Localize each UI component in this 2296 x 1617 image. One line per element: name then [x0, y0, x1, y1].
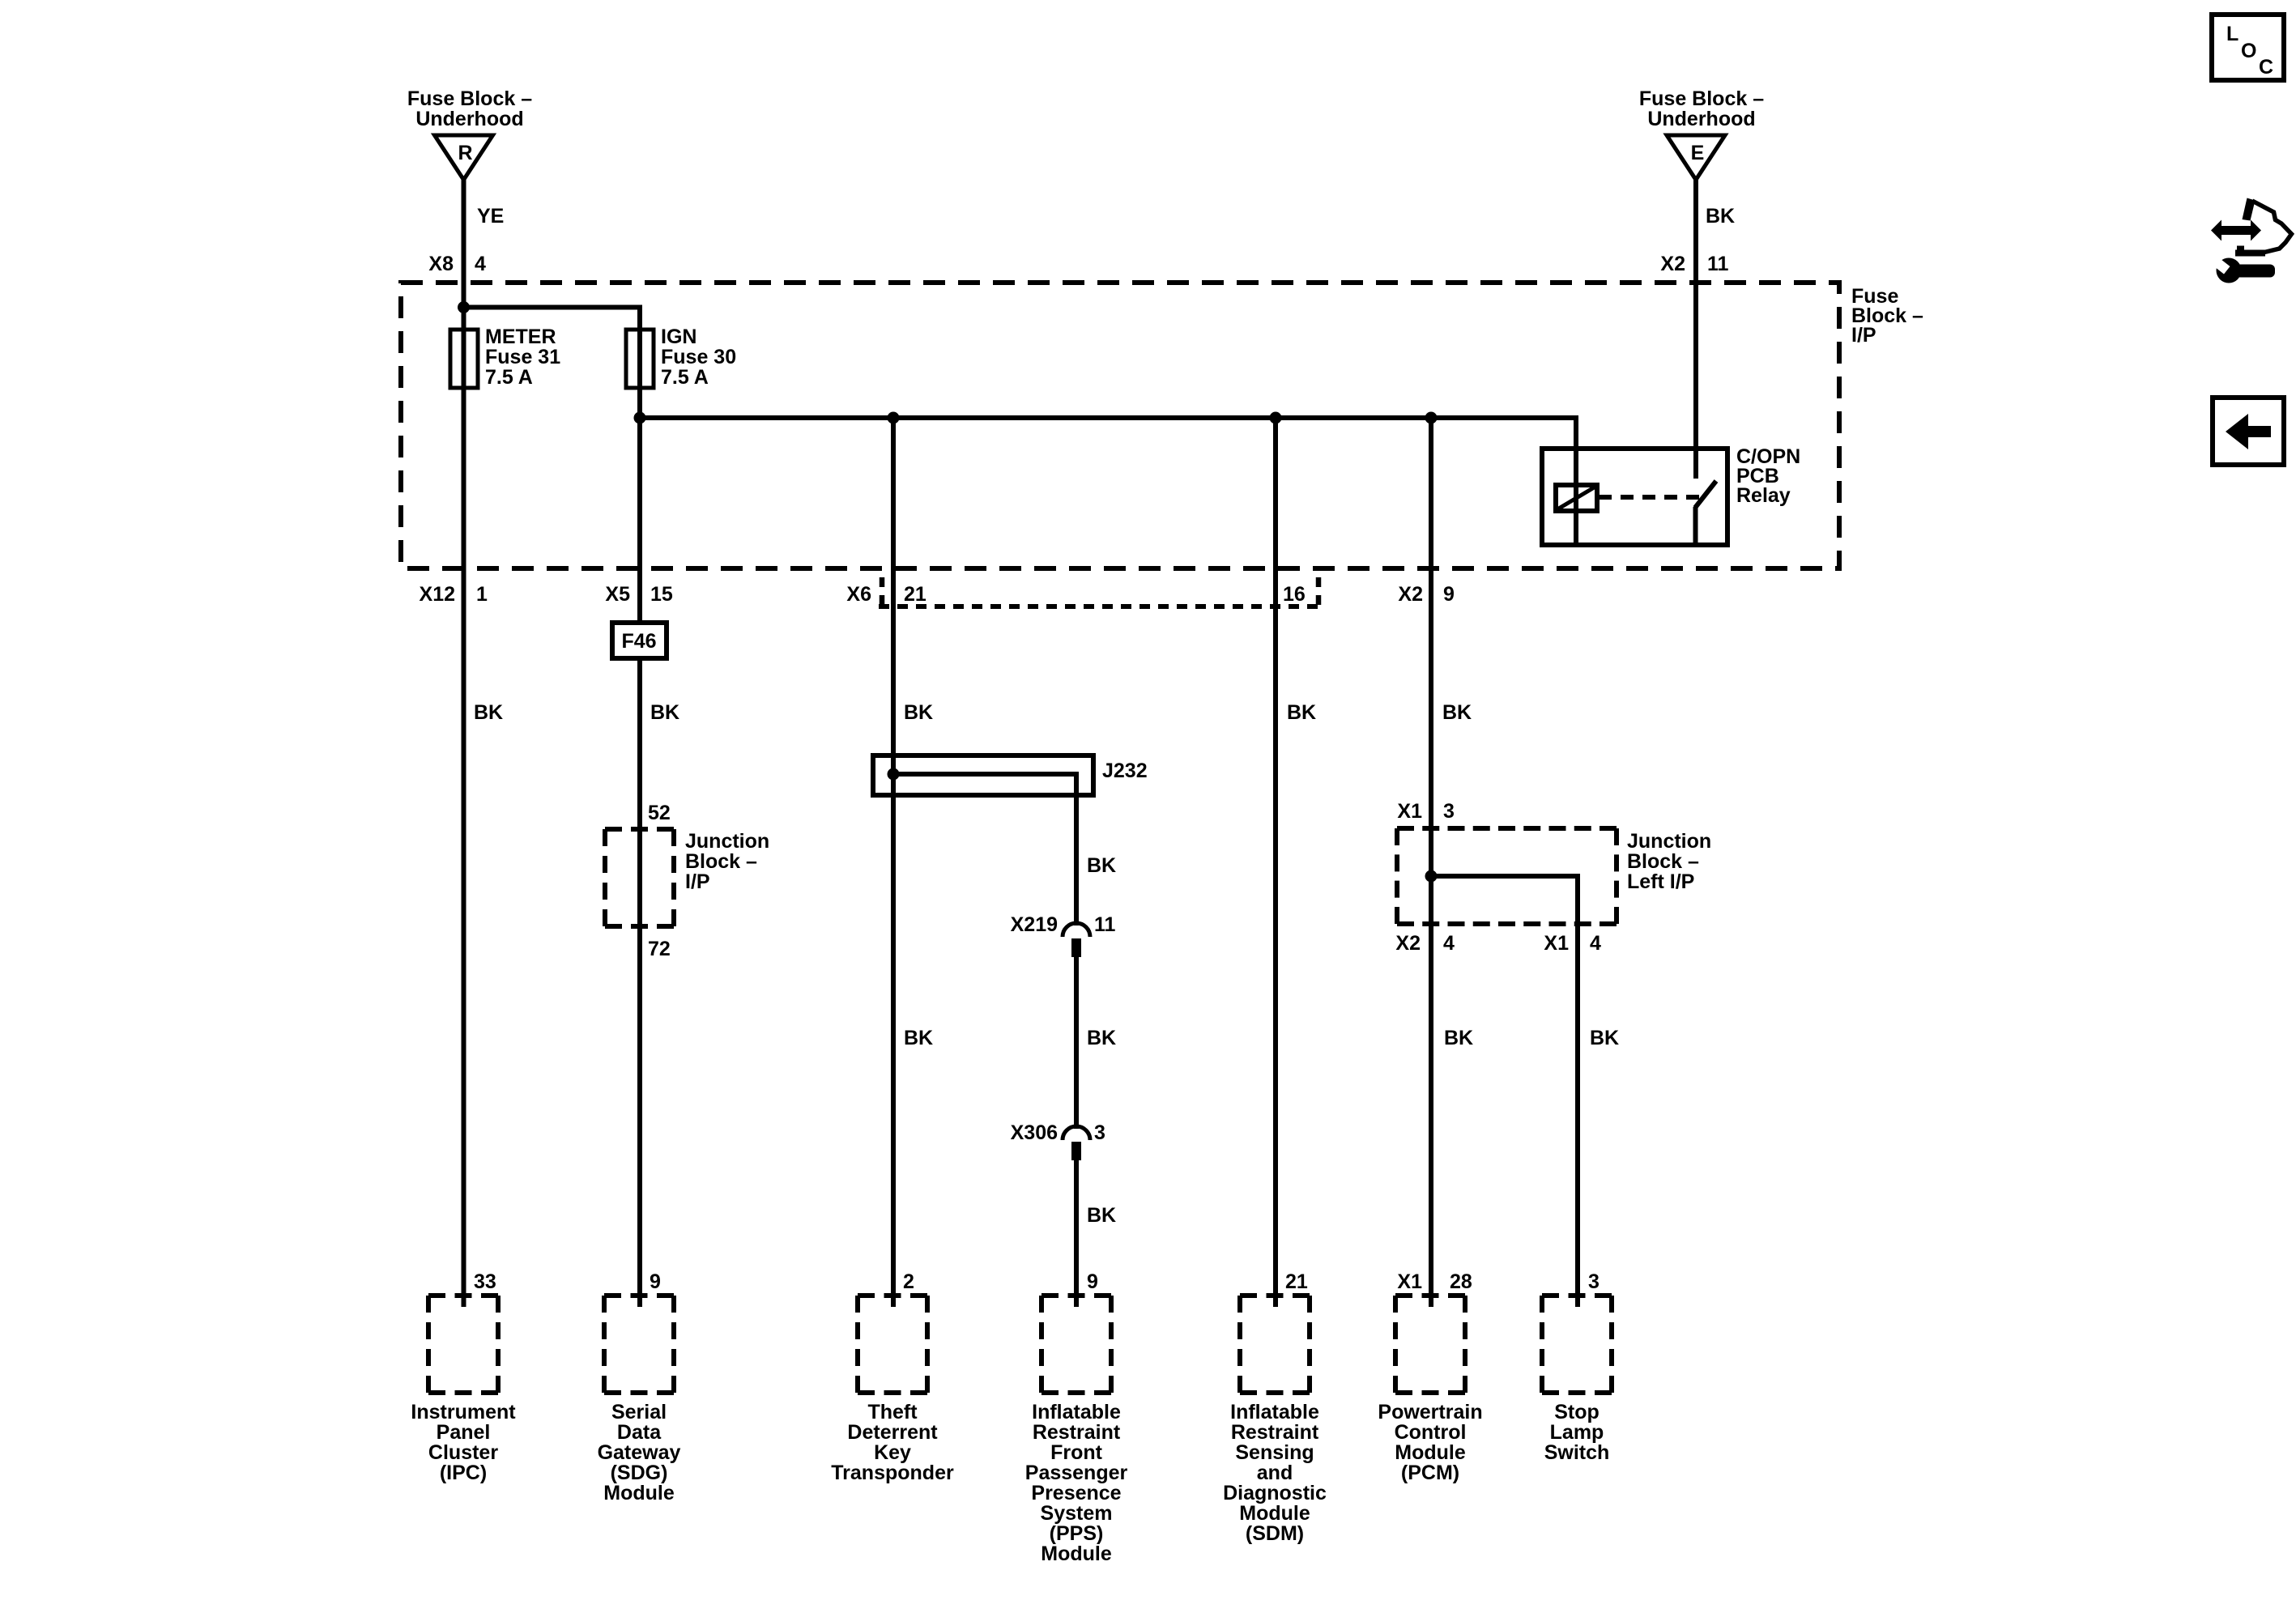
svg-text:Fuse 31: Fuse 31 — [485, 346, 560, 368]
power feed triangle E — [1667, 135, 1725, 180]
svg-text:Key: Key — [874, 1441, 911, 1464]
svg-text:Fuse Block –: Fuse Block – — [407, 87, 532, 110]
svg-text:X5: X5 — [605, 583, 630, 606]
svg-text:21: 21 — [1285, 1270, 1308, 1293]
module box: Instrument Panel Cluster — [428, 1293, 498, 1298]
module box: PPS Module — [1042, 1293, 1111, 1298]
svg-text:X12: X12 — [420, 583, 455, 606]
svg-text:BK: BK — [1087, 1027, 1116, 1049]
module box: Serial Data Gateway — [604, 1293, 674, 1298]
svg-text:F46: F46 — [621, 630, 656, 653]
svg-text:(SDG): (SDG) — [611, 1462, 668, 1484]
fuse F31 (METER Fuse 31 7.5 A) — [450, 330, 478, 388]
svg-text:X2: X2 — [1660, 253, 1685, 275]
wire: R feed down through Fuse 31 to IPC (YE/BK) — [462, 180, 466, 1307]
wire: ignition bus — [640, 418, 1576, 545]
wire: bus to PCM — [1429, 418, 1433, 1307]
svg-text:3: 3 — [1588, 1270, 1600, 1293]
svg-text:E: E — [1691, 142, 1705, 164]
svg-text:Powertrain: Powertrain — [1378, 1401, 1482, 1423]
fuse block I/P dashed outline — [401, 283, 1839, 568]
svg-text:BK: BK — [1444, 1027, 1473, 1049]
icon: harness connector + wrench — [2211, 198, 2292, 283]
svg-text:1: 1 — [476, 583, 488, 606]
icon: LOC legend box — [2212, 15, 2284, 80]
svg-text:Serial: Serial — [611, 1401, 667, 1423]
svg-text:Lamp: Lamp — [1550, 1421, 1604, 1444]
svg-text:Passenger: Passenger — [1025, 1462, 1128, 1484]
svg-text:Deterrent: Deterrent — [847, 1421, 938, 1444]
svg-text:Underhood: Underhood — [1647, 108, 1755, 130]
svg-text:72: 72 — [648, 938, 671, 960]
svg-text:BK: BK — [1706, 205, 1735, 228]
module box: Theft Deterrent Key Transponder — [858, 1293, 927, 1298]
module box: Stop Lamp Switch — [1542, 1293, 1612, 1298]
wire: branch from R feed through Fuse 30 to bus — [464, 308, 641, 419]
fuse F46 box — [612, 623, 667, 658]
svg-text:System: System — [1041, 1502, 1113, 1525]
svg-text:Fuse Block –: Fuse Block – — [1639, 87, 1764, 110]
svg-text:X1: X1 — [1544, 932, 1569, 955]
wire: branch to stop lamp switch — [1431, 876, 1578, 1307]
svg-text:Diagnostic: Diagnostic — [1223, 1482, 1327, 1504]
node: J232 splice — [888, 768, 900, 781]
svg-text:L: L — [2226, 23, 2238, 45]
svg-text:Left I/P: Left I/P — [1627, 870, 1694, 893]
svg-text:BK: BK — [474, 701, 503, 724]
svg-text:Module: Module — [1239, 1502, 1310, 1525]
svg-text:Panel: Panel — [437, 1421, 491, 1444]
node: bus tap PCM — [1425, 412, 1438, 424]
svg-text:METER: METER — [485, 326, 556, 348]
wire: E feed down into relay (BK) — [1693, 180, 1698, 479]
svg-text:X6: X6 — [846, 583, 871, 606]
wire: bus to theft deterrent transponder — [891, 418, 896, 1307]
svg-text:7.5 A: 7.5 A — [661, 366, 709, 389]
svg-text:Relay: Relay — [1736, 484, 1791, 507]
wire: bus to SDM — [1273, 418, 1278, 1307]
svg-text:Block –: Block – — [685, 850, 757, 873]
splice bar J232 — [873, 755, 1093, 795]
svg-text:I/P: I/P — [685, 870, 710, 893]
svg-text:Module: Module — [603, 1482, 675, 1504]
svg-text:Gateway: Gateway — [598, 1441, 681, 1464]
svg-text:Inflatable: Inflatable — [1230, 1401, 1319, 1423]
svg-text:Restraint: Restraint — [1231, 1421, 1319, 1444]
wire: J232 branch to PPS — [893, 774, 1076, 926]
svg-text:BK: BK — [1287, 701, 1316, 724]
module box: PCM — [1395, 1293, 1465, 1298]
svg-text:X2: X2 — [1398, 583, 1423, 606]
in-line connector dotted box (X6/16) — [879, 604, 1318, 609]
in-line connector X306 pin 3 — [1063, 1126, 1090, 1140]
svg-text:4: 4 — [1590, 932, 1601, 955]
wire: bus to SDG module via F46 — [637, 418, 642, 1307]
node: bus at Fuse 30 output — [634, 412, 646, 424]
svg-text:9: 9 — [650, 1270, 661, 1293]
svg-text:X1: X1 — [1397, 800, 1422, 823]
svg-text:Instrument: Instrument — [411, 1401, 516, 1423]
svg-text:Front: Front — [1050, 1441, 1103, 1464]
svg-text:(SDM): (SDM) — [1246, 1522, 1304, 1545]
svg-text:15: 15 — [650, 583, 673, 606]
svg-text:3: 3 — [1094, 1121, 1105, 1144]
svg-text:BK: BK — [904, 701, 933, 724]
svg-text:52: 52 — [648, 802, 671, 824]
svg-text:X1: X1 — [1397, 1270, 1422, 1293]
node: junction block left I/P splice — [1425, 870, 1438, 883]
svg-text:Underhood: Underhood — [415, 108, 523, 130]
wire: X306 to PPS module — [1074, 1160, 1079, 1307]
svg-text:Inflatable: Inflatable — [1032, 1401, 1121, 1423]
svg-text:(PCM): (PCM) — [1401, 1462, 1459, 1484]
svg-text:Theft: Theft — [867, 1401, 918, 1423]
svg-text:(PPS): (PPS) — [1050, 1522, 1104, 1545]
svg-text:BK: BK — [1087, 854, 1116, 877]
svg-text:and: and — [1257, 1462, 1293, 1484]
svg-text:11: 11 — [1094, 913, 1116, 936]
junction block I/P dashed box — [605, 827, 674, 832]
svg-text:7.5 A: 7.5 A — [485, 366, 533, 389]
svg-text:Fuse 30: Fuse 30 — [661, 346, 736, 368]
svg-text:X8: X8 — [428, 253, 454, 275]
svg-text:Restraint: Restraint — [1033, 1421, 1121, 1444]
svg-text:C: C — [2259, 56, 2273, 79]
svg-text:21: 21 — [904, 583, 926, 606]
wire: X219 to X306 — [1074, 957, 1079, 1129]
icon: back arrow box — [2213, 398, 2284, 465]
svg-text:Cluster: Cluster — [428, 1441, 498, 1464]
power feed triangle R — [435, 135, 493, 180]
svg-text:J232: J232 — [1102, 760, 1148, 782]
in-line connector X219 pin 11 — [1063, 923, 1090, 937]
svg-text:16: 16 — [1283, 583, 1306, 606]
node: bus tap theft transponder — [888, 412, 900, 424]
svg-text:3: 3 — [1443, 800, 1455, 823]
svg-text:BK: BK — [650, 701, 679, 724]
node: junction on R feed — [458, 301, 470, 313]
svg-text:2: 2 — [903, 1270, 914, 1293]
svg-text:Transponder: Transponder — [831, 1462, 954, 1484]
svg-text:33: 33 — [474, 1270, 496, 1293]
module box: SDM — [1240, 1293, 1310, 1298]
svg-text:X2: X2 — [1395, 932, 1421, 955]
svg-text:Stop: Stop — [1554, 1401, 1600, 1423]
svg-text:BK: BK — [1590, 1027, 1619, 1049]
svg-text:9: 9 — [1443, 583, 1455, 606]
svg-text:Junction: Junction — [685, 830, 769, 853]
svg-text:(IPC): (IPC) — [440, 1462, 487, 1484]
svg-text:Sensing: Sensing — [1235, 1441, 1314, 1464]
svg-text:O: O — [2241, 40, 2256, 62]
svg-text:Block –: Block – — [1627, 850, 1699, 873]
svg-text:28: 28 — [1450, 1270, 1472, 1293]
junction block Left I/P dashed box — [1397, 826, 1617, 831]
relay switch contact blade — [1695, 481, 1716, 508]
fuse F30 (IGN Fuse 30 7.5 A) — [626, 330, 654, 388]
svg-text:Junction: Junction — [1627, 830, 1711, 853]
svg-text:Switch: Switch — [1544, 1441, 1610, 1464]
svg-text:R: R — [458, 142, 472, 164]
svg-text:4: 4 — [1443, 932, 1455, 955]
svg-text:Data: Data — [617, 1421, 662, 1444]
svg-text:BK: BK — [904, 1027, 933, 1049]
svg-text:I/P: I/P — [1851, 324, 1876, 347]
svg-text:Module: Module — [1041, 1543, 1112, 1565]
svg-text:4: 4 — [475, 253, 486, 275]
svg-text:YE: YE — [477, 205, 504, 228]
svg-text:9: 9 — [1087, 1270, 1098, 1293]
svg-text:X219: X219 — [1011, 913, 1058, 936]
svg-text:Control: Control — [1395, 1421, 1467, 1444]
svg-text:Presence: Presence — [1031, 1482, 1121, 1504]
relay coil — [1556, 485, 1597, 511]
svg-text:Module: Module — [1395, 1441, 1466, 1464]
svg-text:X306: X306 — [1011, 1121, 1058, 1144]
svg-text:BK: BK — [1442, 701, 1472, 724]
node: bus tap SDM — [1270, 412, 1282, 424]
relay coil-contact dashed link — [1599, 495, 1703, 500]
svg-text:IGN: IGN — [661, 326, 696, 348]
relay U1 C/OPN PCB outline — [1542, 449, 1727, 545]
svg-text:BK: BK — [1087, 1204, 1116, 1227]
svg-text:11: 11 — [1707, 253, 1729, 275]
